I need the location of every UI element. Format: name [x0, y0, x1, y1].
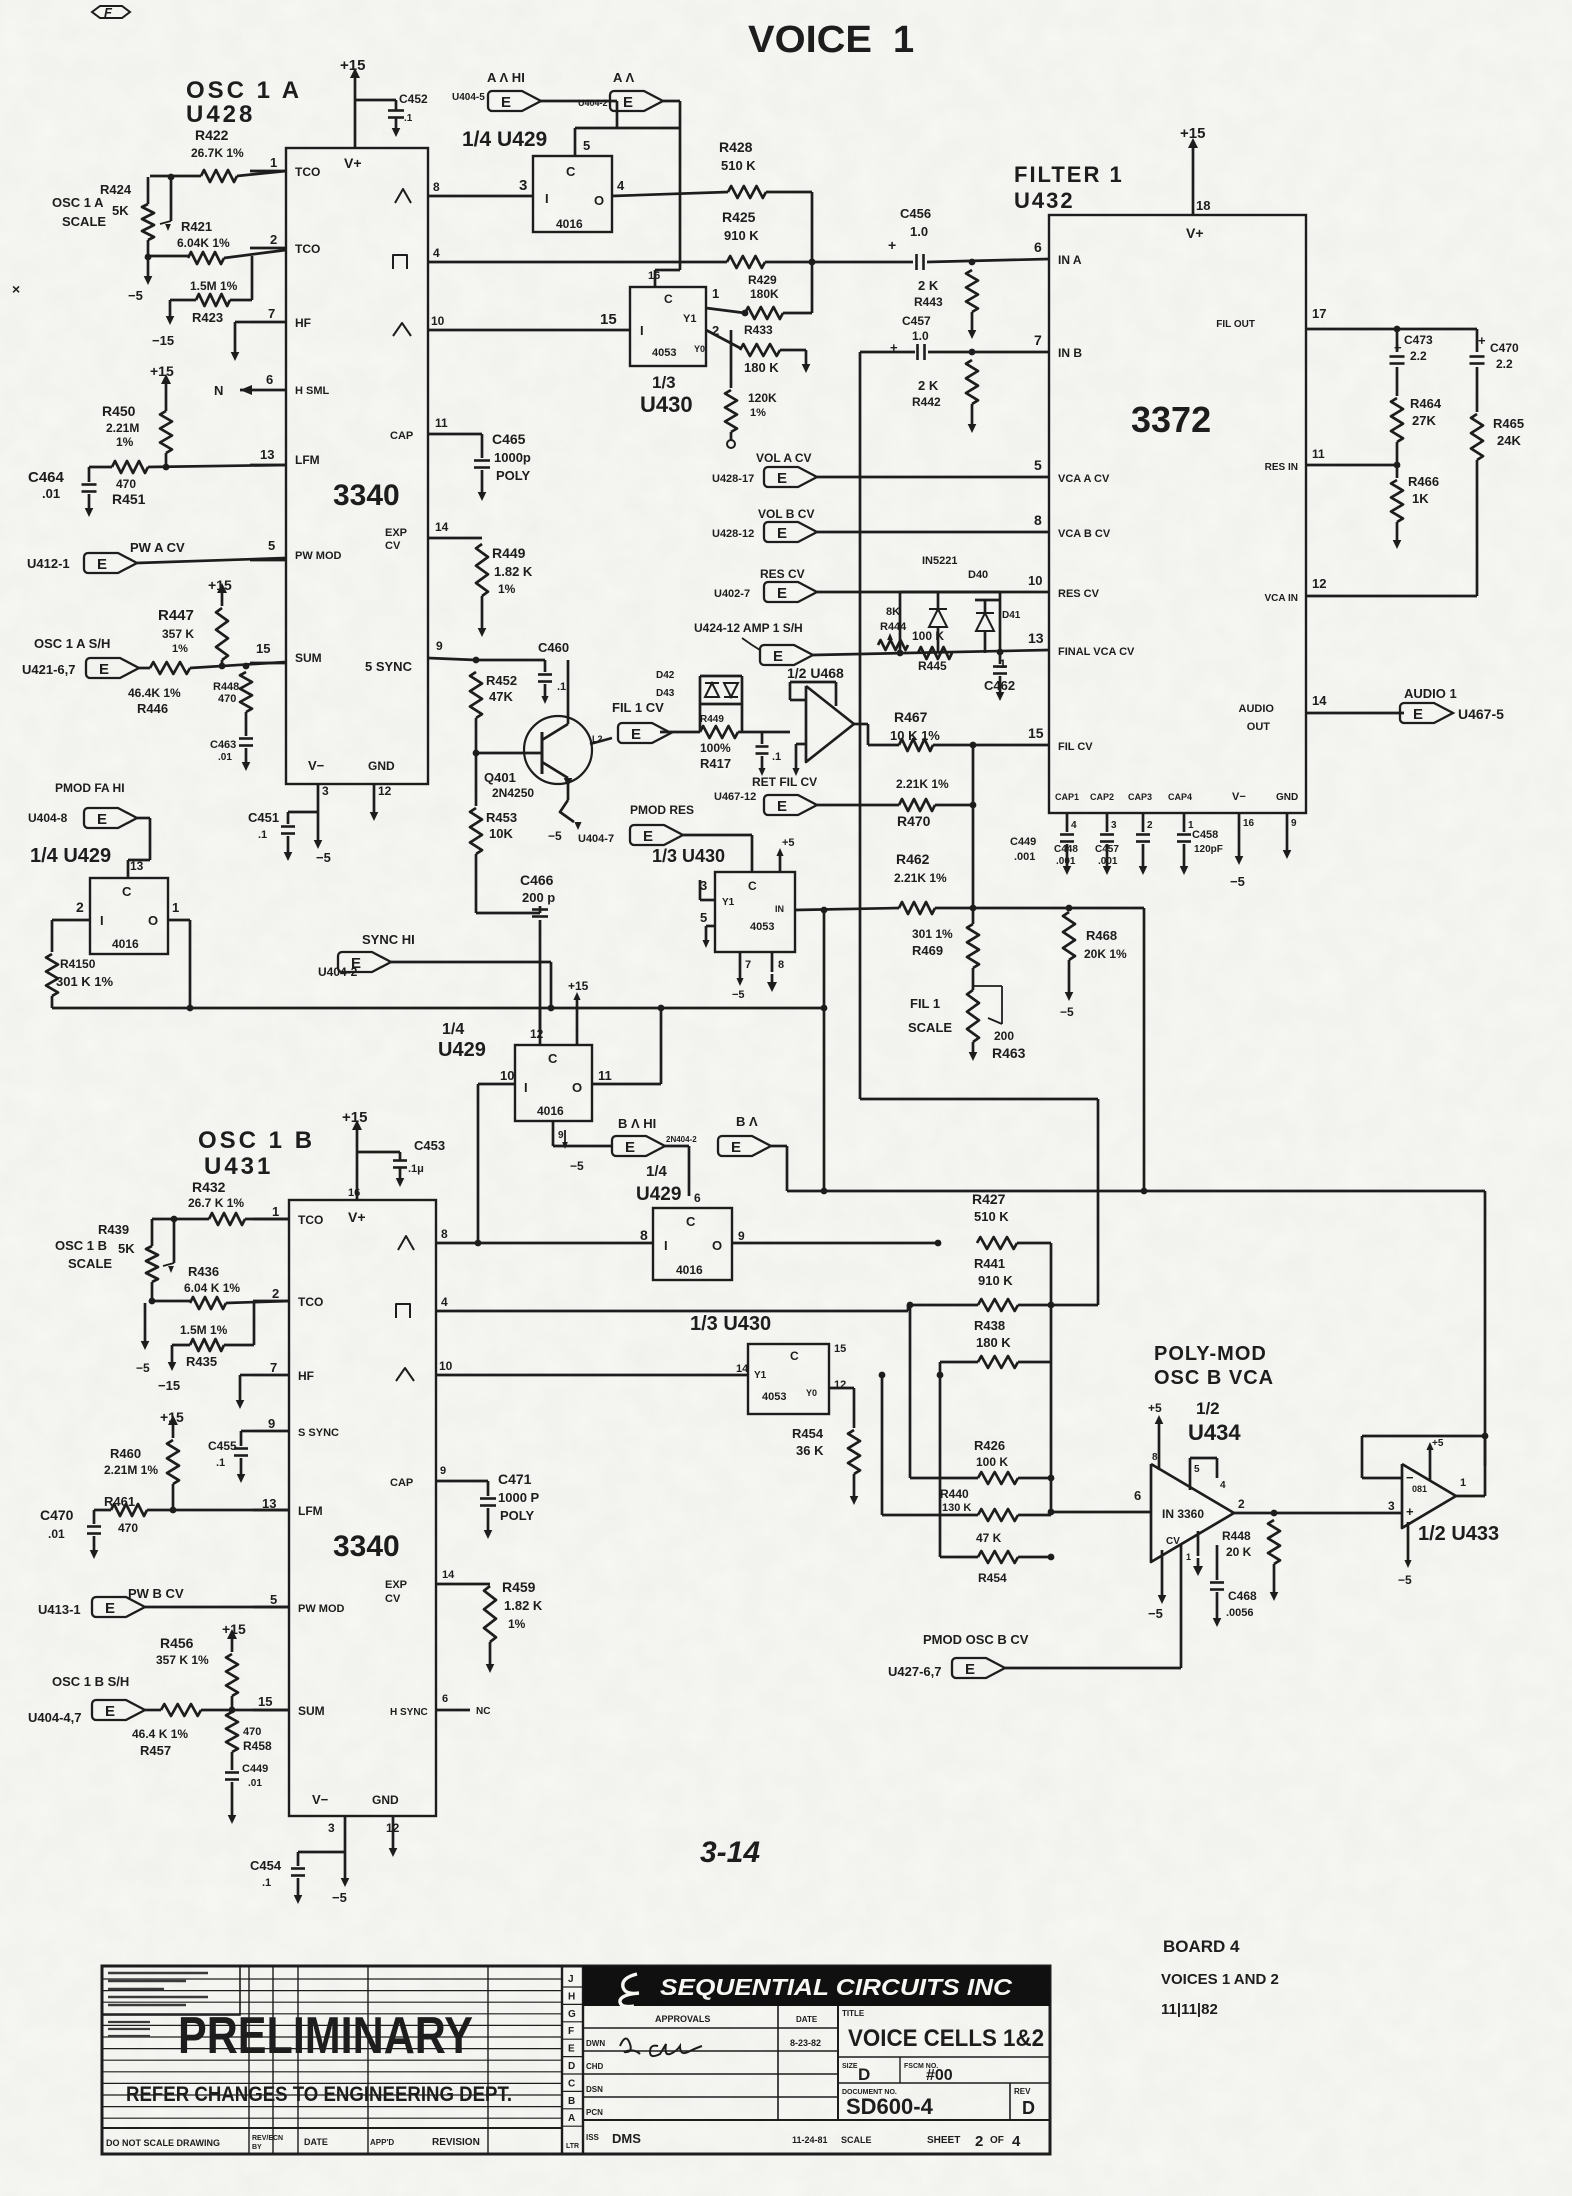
svg-text:R462: R462	[896, 851, 930, 867]
svg-text:1: 1	[172, 900, 179, 915]
svg-text:5K: 5K	[118, 1241, 135, 1256]
svg-text:1.0: 1.0	[912, 329, 929, 343]
svg-text:470: 470	[118, 1521, 138, 1535]
svg-text:2 K: 2 K	[918, 378, 939, 393]
svg-text:13: 13	[260, 447, 274, 462]
svg-text:U412-1: U412-1	[27, 556, 70, 571]
svg-text:3: 3	[322, 784, 329, 798]
svg-text:C451: C451	[248, 810, 279, 825]
svg-text:5: 5	[268, 538, 275, 553]
svg-text:26.7K 1%: 26.7K 1%	[191, 146, 244, 160]
svg-text:6: 6	[266, 372, 273, 387]
zone letter column	[561, 1966, 563, 2154]
svg-text:CAP4: CAP4	[1168, 792, 1192, 802]
IC 1/3 U430 4053 switch A	[630, 287, 706, 366]
svg-text:AUDIO 1: AUDIO 1	[1404, 686, 1457, 701]
svg-text:4: 4	[1071, 820, 1077, 831]
svg-text:OF: OF	[990, 2135, 1004, 2146]
svg-text:+15: +15	[342, 1109, 367, 1126]
svg-text:×: ×	[12, 281, 20, 297]
svg-text:2.21M: 2.21M	[106, 421, 139, 435]
waveform glyph saw pin 10	[393, 323, 411, 336]
svg-text:470: 470	[218, 693, 236, 705]
waveform glyph saw B pin 10	[396, 1368, 414, 1381]
wire 4016 mid O up to sync bus	[592, 1083, 661, 1086]
svg-text:SYNC HI: SYNC HI	[362, 932, 415, 947]
fil out feedback corner	[1097, 1099, 1100, 1305]
svg-text:2.21M 1%: 2.21M 1%	[104, 1463, 158, 1477]
svg-text:−: −	[1406, 1470, 1414, 1485]
svg-text:N: N	[214, 383, 223, 398]
svg-text:PMOD RES: PMOD RES	[630, 803, 694, 817]
svg-text:U434: U434	[1188, 1420, 1241, 1445]
svg-text:E: E	[568, 2044, 575, 2055]
svg-text:−5: −5	[332, 1890, 347, 1905]
svg-text:3: 3	[519, 177, 527, 194]
svg-text:+15: +15	[160, 1409, 184, 1425]
wire pot bottom to -5	[144, 1303, 147, 1341]
svg-text:1: 1	[893, 19, 914, 61]
svg-text:−5: −5	[1148, 1606, 1163, 1621]
svg-text:470: 470	[243, 1726, 261, 1738]
svg-text:E: E	[105, 1600, 115, 1617]
svg-text:IN A: IN A	[1058, 253, 1082, 267]
svg-text:C: C	[790, 1349, 799, 1363]
svg-text:4016: 4016	[556, 217, 583, 231]
svg-text:−5: −5	[570, 1159, 584, 1173]
svg-text:8K: 8K	[886, 606, 900, 618]
resistor R446 46.4K 1%	[150, 662, 190, 674]
svg-text:+: +	[1478, 333, 1486, 348]
svg-text:E: E	[777, 585, 787, 602]
svg-text:R417: R417	[700, 756, 731, 771]
svg-text:SCALE: SCALE	[68, 1256, 112, 1271]
feedback bus down right	[1143, 908, 1146, 1191]
svg-text:2.2: 2.2	[1496, 357, 1513, 371]
svg-text:−5: −5	[732, 989, 745, 1001]
svg-text:2.2: 2.2	[1410, 349, 1427, 363]
svg-text:IN: IN	[775, 904, 784, 914]
svg-text:RES IN: RES IN	[1265, 462, 1298, 473]
svg-text:E: E	[99, 661, 109, 678]
svg-text:200 p: 200 p	[522, 890, 555, 905]
svg-text:CAP1: CAP1	[1055, 792, 1079, 802]
title block outer frame	[102, 1966, 1050, 2154]
svg-text:U404-5: U404-5	[452, 92, 485, 103]
svg-text:V−: V−	[1232, 791, 1246, 803]
svg-text:6: 6	[1134, 1488, 1141, 1503]
svg-text:C: C	[548, 1051, 558, 1066]
svg-text:R466: R466	[1408, 474, 1439, 489]
svg-text:O: O	[148, 913, 158, 928]
svg-text:GND: GND	[1276, 792, 1298, 803]
svg-text:ISS: ISS	[586, 2133, 600, 2142]
svg-text:4: 4	[441, 1295, 448, 1309]
svg-text:REFER CHANGES TO ENGINEERING D: REFER CHANGES TO ENGINEERING DEPT.	[126, 2083, 512, 2106]
svg-text:−15: −15	[158, 1378, 180, 1393]
svg-text:C453: C453	[414, 1138, 445, 1153]
svg-text:6: 6	[1034, 239, 1042, 255]
svg-text:A Λ: A Λ	[613, 70, 635, 85]
svg-text:IN5221: IN5221	[922, 555, 957, 567]
power +15 above R447	[221, 593, 224, 606]
svg-text:11: 11	[1312, 447, 1325, 461]
svg-text:.1: .1	[262, 1877, 271, 1889]
svg-text:C452: C452	[399, 92, 428, 106]
svg-text:AUDIO: AUDIO	[1239, 703, 1275, 715]
svg-text:C468: C468	[1228, 1589, 1257, 1603]
svg-text:I: I	[640, 323, 644, 338]
svg-text:130 K: 130 K	[942, 1502, 971, 1514]
svg-text:8: 8	[433, 180, 440, 194]
svg-text:A: A	[568, 2113, 575, 2124]
svg-text:C457: C457	[902, 314, 931, 328]
svg-text:R453: R453	[486, 810, 517, 825]
svg-text:9: 9	[738, 1229, 745, 1243]
svg-text:7: 7	[270, 1360, 277, 1375]
pin stubs U428 left	[250, 170, 286, 173]
svg-text:R439: R439	[98, 1222, 129, 1237]
svg-text:R447: R447	[158, 607, 194, 624]
svg-text:RES CV: RES CV	[1058, 588, 1100, 600]
svg-text:R426: R426	[974, 1438, 1005, 1453]
power +15 at filter V+	[1192, 148, 1195, 215]
svg-text:8: 8	[1034, 512, 1042, 528]
svg-text:6: 6	[442, 1693, 448, 1705]
svg-text:R452: R452	[486, 673, 517, 688]
capacitor C452	[355, 99, 396, 102]
svg-text:E: E	[965, 1661, 975, 1678]
svg-text:U427-6,7: U427-6,7	[888, 1664, 941, 1679]
resistor R451 470	[89, 466, 112, 469]
svg-text:−5: −5	[1230, 874, 1245, 889]
svg-text:301 K 1%: 301 K 1%	[56, 974, 114, 989]
svg-text:U421-6,7: U421-6,7	[22, 662, 75, 677]
svg-text:5: 5	[270, 1592, 277, 1607]
svg-text:REV/ECN: REV/ECN	[252, 2135, 283, 2142]
wire 4016 mid bottom to BΛHI	[552, 1121, 555, 1146]
svg-text:R451: R451	[112, 491, 146, 507]
title block fine print box	[102, 1966, 240, 2015]
svg-text:POLY-MOD: POLY-MOD	[1154, 1343, 1267, 1365]
svg-text:D41: D41	[1002, 610, 1021, 621]
svg-text:16: 16	[1243, 818, 1255, 829]
svg-text:11: 11	[598, 1068, 612, 1083]
svg-text:R445: R445	[918, 659, 947, 673]
svg-text:100 K: 100 K	[912, 629, 944, 643]
svg-text:U404-4,7: U404-4,7	[28, 1710, 81, 1725]
svg-text:Y0: Y0	[694, 344, 705, 354]
svg-text:E: E	[631, 726, 641, 743]
svg-text:10: 10	[1028, 573, 1042, 588]
IC U432 3372 filter/VCA	[1049, 215, 1306, 813]
U433 negative supply	[1407, 1522, 1410, 1560]
wire saw row to 4053A	[428, 329, 630, 332]
svg-text:R468: R468	[1086, 928, 1117, 943]
U434 feedback loop	[1189, 1458, 1192, 1490]
svg-text:1: 1	[1460, 1477, 1466, 1489]
power +15 above R456	[231, 1639, 234, 1652]
svg-text:DWN: DWN	[586, 2039, 605, 2048]
approvals grid	[583, 2027, 838, 2029]
svg-text:IN 3360: IN 3360	[1162, 1507, 1204, 1521]
svg-text:SUM: SUM	[298, 1704, 325, 1718]
svg-text:13: 13	[1028, 630, 1044, 646]
svg-text:8: 8	[778, 959, 784, 971]
svg-text:46.4 K 1%: 46.4 K 1%	[132, 1727, 188, 1741]
svg-text:C456: C456	[900, 206, 931, 221]
svg-text:C466: C466	[520, 872, 554, 888]
svg-text:180 K: 180 K	[976, 1335, 1011, 1350]
svg-text:12: 12	[378, 784, 392, 798]
svg-text:1/3: 1/3	[652, 373, 676, 392]
svg-text:4016: 4016	[112, 937, 139, 951]
svg-text:9: 9	[1291, 818, 1297, 829]
svg-text:910 K: 910 K	[724, 228, 759, 243]
svg-text:SCALE: SCALE	[841, 2135, 872, 2145]
svg-text:+5: +5	[782, 837, 795, 849]
svg-text:C: C	[748, 879, 757, 893]
svg-text:C455: C455	[208, 1439, 237, 1453]
svg-text:14: 14	[435, 520, 449, 534]
resistor 120K 1% below 4053A	[730, 330, 733, 388]
svg-text:1%: 1%	[508, 1617, 526, 1631]
svg-text:1: 1	[270, 155, 277, 170]
svg-text:6: 6	[694, 1191, 701, 1205]
svg-text:9: 9	[440, 1465, 446, 1477]
svg-text:6.04K 1%: 6.04K 1%	[177, 236, 230, 250]
wire 4016A out through R428	[612, 192, 728, 196]
svg-text:1000p: 1000p	[494, 450, 531, 465]
svg-text:3-14: 3-14	[700, 1836, 760, 1869]
svg-text:PW MOD: PW MOD	[295, 550, 341, 562]
svg-text:1/2 U468: 1/2 U468	[787, 665, 844, 681]
svg-text:9: 9	[558, 1130, 564, 1141]
svg-text:PMOD FA HI: PMOD FA HI	[55, 781, 125, 795]
svg-text:R427: R427	[972, 1191, 1006, 1207]
svg-text:C471: C471	[498, 1471, 532, 1487]
svg-text:SEQUENTIAL CIRCUITS INC: SEQUENTIAL CIRCUITS INC	[660, 1974, 1012, 2000]
svg-text:L2: L2	[592, 734, 603, 744]
svg-text:POLY: POLY	[496, 468, 531, 483]
capacitor C449 .01	[231, 1752, 234, 1770]
svg-text:8: 8	[640, 1227, 648, 1243]
wire pin7 HF B	[240, 1374, 253, 1377]
svg-text:NC: NC	[476, 1706, 490, 1717]
svg-text:VOL A CV: VOL A CV	[756, 451, 812, 465]
svg-text:.1: .1	[216, 1457, 225, 1469]
svg-text:4053: 4053	[750, 921, 774, 933]
svg-text:D: D	[858, 2065, 870, 2084]
svg-text:B Λ HI: B Λ HI	[618, 1116, 656, 1131]
svg-text:Y1: Y1	[683, 313, 696, 325]
svg-text:EXP: EXP	[385, 527, 407, 539]
svg-text:R464: R464	[1410, 396, 1442, 411]
svg-text:F: F	[104, 5, 113, 20]
svg-text:1: 1	[1186, 1552, 1191, 1562]
svg-text:U467-5: U467-5	[1458, 706, 1504, 722]
wire flag to U434 cv	[1180, 1545, 1183, 1668]
svg-text:R449: R449	[700, 714, 724, 725]
svg-text:4: 4	[1012, 2133, 1021, 2150]
svg-text:6.04 K 1%: 6.04 K 1%	[184, 1281, 240, 1295]
svg-text:−5: −5	[548, 829, 562, 843]
svg-text:−5: −5	[1060, 1005, 1074, 1019]
svg-text:R441: R441	[974, 1256, 1005, 1271]
svg-text:C454: C454	[250, 1858, 282, 1873]
svg-text:SUM: SUM	[295, 651, 322, 665]
svg-text:APP'D: APP'D	[370, 2138, 394, 2147]
svg-text:#00: #00	[926, 2067, 953, 2084]
svg-text:4: 4	[617, 178, 625, 193]
svg-text:R444: R444	[880, 621, 907, 633]
svg-text:2: 2	[975, 2133, 983, 2150]
power +15 at U431 V+	[356, 1152, 359, 1200]
power +5 at U434	[1158, 1424, 1161, 1470]
svg-text:8: 8	[1152, 1452, 1158, 1463]
svg-text:1.82 K: 1.82 K	[494, 564, 533, 579]
svg-text:PW MOD: PW MOD	[298, 1603, 344, 1615]
svg-text:10K: 10K	[489, 826, 513, 841]
svg-text:3: 3	[1111, 820, 1117, 831]
svg-text:PW B CV: PW B CV	[128, 1586, 184, 1601]
resistor R449 1.82K 1% exp cv	[428, 537, 482, 540]
svg-text:C449: C449	[1010, 836, 1036, 848]
svg-text:470: 470	[116, 477, 136, 491]
svg-text:FIL CV: FIL CV	[1058, 741, 1093, 753]
svg-text:R428: R428	[719, 139, 753, 155]
svg-text:2.21K 1%: 2.21K 1%	[896, 777, 949, 791]
svg-text:5: 5	[583, 138, 590, 153]
svg-text:PMOD OSC B CV: PMOD OSC B CV	[923, 1632, 1029, 1647]
svg-text:E: E	[1413, 706, 1423, 723]
svg-text:12: 12	[530, 1027, 544, 1041]
svg-text:E: E	[97, 556, 107, 573]
IC U428 3340 VCO	[286, 148, 428, 784]
svg-text:V−: V−	[312, 1792, 329, 1807]
svg-text:26.7 K 1%: 26.7 K 1%	[188, 1196, 244, 1210]
waveform glyph triangle B pin 8	[398, 1236, 414, 1250]
svg-text:R436: R436	[188, 1264, 219, 1279]
svg-text:TCO: TCO	[295, 165, 320, 179]
svg-text:VOICE: VOICE	[748, 19, 872, 61]
flag AMP 1 S/H final vca	[760, 645, 813, 665]
svg-text:R463: R463	[992, 1045, 1026, 1061]
svg-text:PW A CV: PW A CV	[130, 540, 185, 555]
svg-text:R457: R457	[140, 1743, 171, 1758]
IC U431 3340 VCO	[289, 1200, 436, 1816]
svg-text:36 K: 36 K	[796, 1443, 824, 1458]
svg-text:1.5M 1%: 1.5M 1%	[180, 1323, 228, 1337]
svg-text:120pF: 120pF	[1194, 844, 1223, 855]
svg-text:DO NOT SCALE DRAWING: DO NOT SCALE DRAWING	[106, 2138, 220, 2148]
svg-text:R440: R440	[940, 1487, 969, 1501]
capacitor C468 .0056	[1216, 1545, 1219, 1580]
svg-text:SCALE: SCALE	[908, 1020, 952, 1035]
svg-text:180 K: 180 K	[744, 360, 779, 375]
svg-text:LTR: LTR	[566, 2143, 579, 2150]
svg-text:2N4250: 2N4250	[492, 786, 534, 800]
svg-text:U429: U429	[438, 1039, 486, 1061]
svg-text:46.4K 1%: 46.4K 1%	[128, 686, 181, 700]
svg-text:H SYNC: H SYNC	[390, 1707, 428, 1718]
svg-text:REV: REV	[1014, 2087, 1031, 2096]
svg-text:1: 1	[272, 1204, 279, 1219]
svg-text:OSC 1 A S/H: OSC 1 A S/H	[34, 636, 110, 651]
svg-text:Y1: Y1	[754, 1370, 767, 1381]
svg-text:3: 3	[1388, 1499, 1395, 1513]
svg-text:10: 10	[439, 1359, 453, 1373]
svg-text:C: C	[122, 884, 132, 899]
title block left column dividers	[248, 1966, 250, 2154]
svg-text:DMS: DMS	[612, 2131, 641, 2146]
svg-text:U402-7: U402-7	[714, 588, 750, 600]
svg-text:U413-1: U413-1	[38, 1602, 81, 1617]
svg-text:20 K: 20 K	[1226, 1545, 1252, 1559]
svg-text:R435: R435	[186, 1354, 217, 1369]
svg-text:H SML: H SML	[295, 385, 330, 397]
svg-text:.0056: .0056	[1226, 1607, 1254, 1619]
svg-text:27K: 27K	[1412, 413, 1436, 428]
svg-text:1: 1	[1188, 820, 1194, 831]
svg-text:FIL OUT: FIL OUT	[1216, 319, 1255, 330]
svg-text:OUT: OUT	[1247, 721, 1271, 733]
svg-text:VOL B CV: VOL B CV	[758, 507, 814, 521]
svg-text:I: I	[664, 1238, 668, 1253]
svg-text:VOICES 1 AND 2: VOICES 1 AND 2	[1161, 1971, 1279, 1988]
svg-text:CV: CV	[385, 1593, 401, 1605]
svg-text:LFM: LFM	[295, 453, 320, 467]
wire 4053 mid out through R462	[795, 908, 899, 910]
wire VCA IN row	[1306, 595, 1477, 598]
svg-text:−5: −5	[136, 1361, 150, 1375]
svg-text:357 K: 357 K	[162, 627, 194, 641]
title block left ledger lines	[102, 1978, 562, 1980]
resistor R458 470	[226, 1712, 238, 1752]
wire B pulse row	[436, 1310, 908, 1313]
svg-text:9: 9	[436, 639, 443, 653]
svg-text:IN B: IN B	[1058, 346, 1082, 360]
svg-text:O: O	[572, 1080, 582, 1095]
svg-text:C: C	[568, 2078, 575, 2089]
svg-text:CAP: CAP	[390, 1477, 413, 1489]
svg-text:R432: R432	[192, 1179, 226, 1195]
svg-text:3: 3	[328, 1821, 335, 1835]
svg-text:1%: 1%	[116, 435, 134, 449]
svg-text:R469: R469	[912, 943, 943, 958]
svg-text:GND: GND	[372, 1793, 399, 1807]
svg-text:E: E	[731, 1139, 741, 1156]
svg-text:.01: .01	[42, 486, 60, 501]
svg-text:R454: R454	[792, 1426, 824, 1441]
svg-text:D42: D42	[656, 670, 675, 681]
svg-text:R433: R433	[744, 323, 773, 337]
svg-text:20K 1%: 20K 1%	[1084, 947, 1127, 961]
svg-text:+15: +15	[222, 1621, 246, 1637]
svg-text:VCA IN: VCA IN	[1264, 593, 1298, 604]
flag FIL 1 CV	[618, 723, 671, 743]
svg-text:C458: C458	[1192, 829, 1218, 841]
svg-text:15: 15	[834, 1343, 846, 1355]
svg-text:+15: +15	[208, 577, 232, 593]
svg-text:1/4: 1/4	[442, 1021, 464, 1038]
svg-text:E: E	[777, 525, 787, 542]
wire U434 out to U433	[1234, 1512, 1402, 1515]
svg-text:11-24-81: 11-24-81	[792, 2135, 828, 2145]
svg-text:5: 5	[700, 910, 707, 925]
svg-text:120K: 120K	[748, 391, 777, 405]
wire FIL OUT row	[1306, 328, 1477, 331]
